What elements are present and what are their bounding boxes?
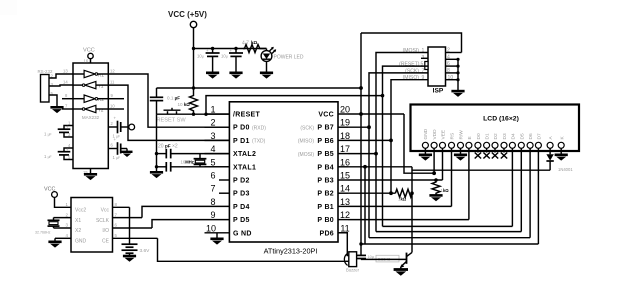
wire ISP MOSI row <box>376 53 428 232</box>
svg-text:P B3: P B3 <box>317 178 334 185</box>
wire row 244 to LCD D7 <box>361 243 538 245</box>
wire sck-net row to LCD D6 <box>369 237 530 239</box>
svg-text:7: 7 <box>210 184 215 194</box>
wire diode row to transistor collector <box>412 169 550 171</box>
capacitor 10uF buzzer <box>356 255 375 259</box>
wire mosi-net row to LCD D5 <box>376 231 521 233</box>
transistor Q1 <box>400 252 412 268</box>
wire LCD RS down <box>451 148 453 206</box>
svg-text:10µ: 10µ <box>221 54 228 59</box>
node LCD D2 no-connect X <box>492 148 498 158</box>
wire LCD E down <box>468 148 470 219</box>
ground under LED <box>260 73 273 79</box>
wire pin16 row to collector net <box>348 166 412 168</box>
wire pin20 VCC row to x404 <box>348 113 404 115</box>
wire pin17 MOSI row <box>348 153 376 155</box>
svg-text:(MOSI): (MOSI) <box>298 152 314 158</box>
svg-text:VDD: VDD <box>432 129 438 140</box>
svg-text:E: E <box>467 136 473 139</box>
svg-text:+: + <box>229 48 232 53</box>
wire VCC feed to LCD VDD <box>404 114 434 173</box>
wire DS1302 CE to bottom rail <box>158 238 347 261</box>
svg-text:VCC: VCC <box>83 48 95 54</box>
svg-text:VCC: VCC <box>318 112 334 119</box>
wire ISP MISO row <box>391 80 428 194</box>
wire LED to ground <box>266 61 268 72</box>
node LCD D1 no-connect X <box>483 148 489 158</box>
svg-text:D3: D3 <box>502 133 508 139</box>
wire reset to pin 1 <box>194 113 230 115</box>
wire ISP SCK row <box>369 73 428 238</box>
LED power (POWER LED) <box>261 47 304 62</box>
DS1302 pin numbers <box>66 202 118 238</box>
svg-text:(MISO): (MISO) <box>298 139 314 145</box>
MCU left pin numbers <box>206 105 216 234</box>
ground LCD K pin <box>555 148 568 160</box>
svg-text:2: 2 <box>447 48 450 54</box>
node LCD D3 no-connect X <box>501 148 507 158</box>
wire DS1302 GND pin4 <box>48 238 71 247</box>
battery 3.6V <box>122 207 151 261</box>
svg-text:20: 20 <box>340 105 350 115</box>
wire pin18 MISO row <box>348 139 391 141</box>
wire LCD D6 down <box>529 148 531 237</box>
wire pin14 row lead to resistor <box>348 192 395 194</box>
ISP left pin labels <box>399 48 420 81</box>
wire pin19 SCK row <box>348 126 369 128</box>
wire ISP gnd chain <box>457 59 459 91</box>
node VCC terminal DS1302 <box>44 187 71 208</box>
svg-text:3.6V: 3.6V <box>140 248 151 254</box>
svg-text:VCC (+5V): VCC (+5V) <box>168 10 207 19</box>
capacitor 20pF (XTAL1) <box>157 162 230 172</box>
svg-text:19: 19 <box>340 118 350 128</box>
svg-text:1 µF: 1 µF <box>44 154 52 159</box>
wire shared ground vertical (reset/xtal) <box>156 114 158 172</box>
svg-text:PD6: PD6 <box>319 230 334 237</box>
crystal 32.768kHz at DS1302 <box>35 218 71 235</box>
svg-text:D6: D6 <box>528 133 534 139</box>
wire VCC rail y=88 (reset area to right bus) <box>157 87 362 89</box>
svg-text:(TXD): (TXD) <box>252 139 266 145</box>
DS1302 internal labels <box>75 208 87 245</box>
svg-text:X2: X2 <box>75 228 81 234</box>
wire VCC vertical feed <box>193 28 195 88</box>
svg-text:D5: D5 <box>519 133 525 139</box>
MCU right pin numbers <box>340 105 350 234</box>
svg-text:GND: GND <box>75 239 87 245</box>
wire top VCC rail to LED <box>194 48 267 50</box>
svg-text:2: 2 <box>210 118 215 128</box>
wire pin15 row to VEE contrast network <box>348 179 443 181</box>
svg-text:1 µF: 1 µF <box>44 132 52 137</box>
ground transistor emitter <box>394 267 408 276</box>
wire T2out stub <box>62 108 73 110</box>
svg-text:P B1: P B1 <box>317 204 334 211</box>
chip U3 DS1302 body <box>71 198 113 253</box>
svg-text:P B5: P B5 <box>317 151 334 158</box>
DS1302 right stubs <box>113 207 158 238</box>
svg-text:11: 11 <box>110 80 115 85</box>
wire MCU PD6 pin11 to buzzer <box>338 233 349 256</box>
svg-text:CE: CE <box>102 239 110 245</box>
svg-text:P D5: P D5 <box>233 217 250 224</box>
node LCD D0 no-connect X <box>475 148 481 158</box>
svg-text:16: 16 <box>340 157 350 167</box>
wire LCD D7 down <box>537 148 539 244</box>
svg-text:R/W: R/W <box>459 130 465 140</box>
svg-text:D7: D7 <box>537 133 543 139</box>
connector J2 ISP header <box>425 47 446 95</box>
svg-text:D2: D2 <box>493 133 499 139</box>
svg-text:10µ: 10µ <box>368 255 375 259</box>
svg-text:6: 6 <box>447 61 450 67</box>
wire inside chip rows <box>73 73 84 75</box>
svg-text:32.768Hz: 32.768Hz <box>35 231 51 235</box>
node VCC at MAX232 pin16 <box>83 48 95 64</box>
svg-text:D0: D0 <box>476 133 482 139</box>
svg-text:10µ: 10µ <box>197 54 204 59</box>
wire R2out stub <box>108 98 124 100</box>
capacitor 20pF (XTAL2) <box>157 144 230 159</box>
LCD pin labels rotated <box>423 128 565 139</box>
MCU left pin names <box>233 112 261 238</box>
capacitor C bypass 2 (10u) <box>221 48 243 73</box>
svg-text:MAX232: MAX232 <box>82 115 100 120</box>
wire LCD VDD down <box>433 148 435 173</box>
wire MCU pin10 GND <box>210 233 223 245</box>
svg-text:1kΩ: 1kΩ <box>398 197 407 202</box>
svg-text:D1: D1 <box>485 133 491 139</box>
svg-text:17: 17 <box>340 144 350 154</box>
svg-text:I/O: I/O <box>102 228 109 234</box>
svg-text:P D4: P D4 <box>233 204 250 211</box>
svg-text:GND: GND <box>423 128 429 139</box>
svg-text:ATtiny2313-20PI: ATtiny2313-20PI <box>264 247 318 256</box>
svg-text:(RXD): (RXD) <box>252 126 266 132</box>
capacitor 1uF (MAX232 pin6 V-) <box>108 137 127 160</box>
wire LCD D5 down <box>520 148 522 231</box>
buffer R1 <box>84 70 104 78</box>
chip LCD (16x2) module <box>411 105 580 152</box>
wire RS232 pin2 to R1in <box>49 74 73 78</box>
node VCC (+5V) terminal <box>168 10 207 28</box>
svg-text:Buzzer: Buzzer <box>346 268 360 273</box>
svg-text:10: 10 <box>206 223 216 233</box>
capacitor C bypass 1 (10u) <box>197 48 220 73</box>
resistor 1K contrast <box>432 180 440 195</box>
svg-text:P B6: P B6 <box>317 138 334 145</box>
chip U2 MAX232 body <box>73 63 108 169</box>
wire DS1302 SCLK to MCU PD4 <box>142 206 205 217</box>
capacitor 1uF (MAX232 pin2 V+) <box>108 116 134 139</box>
MCU left pin stubs 1-10 <box>205 114 230 233</box>
svg-text:5: 5 <box>210 157 215 167</box>
resistor 10K (reset pullup) <box>178 88 198 114</box>
svg-text:P B0: P B0 <box>317 217 334 224</box>
ground LCD GND pin <box>419 148 432 160</box>
ground LCD R/W pin <box>454 148 467 160</box>
svg-text:kΩ: kΩ <box>251 40 258 45</box>
wire ISP pin3 stub <box>421 57 428 59</box>
buffer T1 <box>82 81 103 89</box>
switch RESET SW <box>157 108 194 124</box>
svg-text:Vcc2: Vcc2 <box>75 208 86 214</box>
ground under C1 <box>206 73 219 79</box>
svg-text:+: + <box>206 48 209 53</box>
ground MAX232 pin6 cap <box>122 152 133 157</box>
svg-text:1: 1 <box>210 105 215 115</box>
svg-text:14: 14 <box>63 80 68 85</box>
svg-text:3: 3 <box>210 131 215 141</box>
resistor 1K series (pin14) <box>395 189 412 197</box>
svg-text:9: 9 <box>210 210 215 220</box>
buffer R2 <box>84 95 104 103</box>
capacitor 1uF (MAX232 pins 4-5) <box>44 143 73 160</box>
svg-text:10: 10 <box>448 75 454 81</box>
svg-text:ISP: ISP <box>433 88 444 95</box>
wire ISP RESET row <box>383 66 429 226</box>
wire RS232 pin3 to T1out <box>49 85 73 86</box>
svg-text:D4: D4 <box>511 133 517 139</box>
svg-text:4.7: 4.7 <box>242 41 249 47</box>
MCU right pin stubs 20-11 <box>338 114 348 233</box>
svg-text:XTAL2: XTAL2 <box>233 151 256 158</box>
resistor R 4.7K (LED series) <box>242 40 267 53</box>
wire LCD D4 down <box>511 148 513 226</box>
svg-text:1 µF: 1 µF <box>113 155 121 160</box>
buzzer <box>344 252 359 273</box>
svg-text:16: 16 <box>84 59 89 64</box>
svg-text:11: 11 <box>340 223 349 233</box>
wire pin13 row to LCD RS <box>348 205 452 207</box>
svg-text:12: 12 <box>340 210 350 220</box>
svg-text:Vcc: Vcc <box>101 208 110 214</box>
capacitor 0.1uF (VCC bypass at reset) <box>150 88 180 114</box>
transistor Q1 label <box>376 255 399 262</box>
svg-text:POWER LED: POWER LED <box>274 55 304 61</box>
wire R2in stub <box>62 98 73 100</box>
wire collector vertical <box>411 167 413 253</box>
capacitor 1uF (MAX232 pins 1-3) <box>44 121 73 138</box>
svg-text:XTAL1: XTAL1 <box>233 164 256 171</box>
svg-text:P D1: P D1 <box>233 138 250 145</box>
diode 1N4001 at LCD A <box>546 148 573 172</box>
wire DS1302 I/O to MCU PD5 <box>152 220 205 228</box>
ISP right stubs and numbers <box>446 53 462 80</box>
LCD pin circles <box>422 142 564 148</box>
buffer T2 <box>82 105 103 113</box>
svg-text:P D0: P D0 <box>233 125 250 132</box>
svg-text:1N4001: 1N4001 <box>558 167 573 172</box>
svg-text:(SCK): (SCK) <box>300 126 314 132</box>
svg-text:8: 8 <box>447 68 450 74</box>
ground xtal caps <box>150 172 163 178</box>
wire MAX232 pin15 to ground <box>83 169 97 181</box>
svg-text:15: 15 <box>340 171 350 181</box>
wire reset-net row to LCD D4 <box>383 225 513 227</box>
svg-text:VEE: VEE <box>441 130 447 140</box>
svg-text:13: 13 <box>63 69 68 74</box>
svg-text:P D3: P D3 <box>233 191 250 198</box>
ground contrast resistor <box>429 195 442 201</box>
svg-text:14: 14 <box>340 184 350 194</box>
svg-text:4: 4 <box>447 54 450 60</box>
svg-text:P B2: P B2 <box>317 191 334 198</box>
ground under C2 <box>229 73 242 79</box>
svg-text:4: 4 <box>210 144 215 154</box>
svg-text:13: 13 <box>340 197 350 207</box>
svg-text:P B7: P B7 <box>317 125 334 132</box>
connector RS-232 <box>38 69 54 102</box>
svg-text:12: 12 <box>110 69 115 74</box>
svg-text:RESET SW: RESET SW <box>157 118 187 124</box>
svg-text:1kΩ: 1kΩ <box>441 188 450 193</box>
svg-text:X1: X1 <box>75 218 81 224</box>
svg-text:LCD (16×2): LCD (16×2) <box>483 116 519 123</box>
svg-text:0.1 µF: 0.1 µF <box>167 96 180 101</box>
svg-text:P D2: P D2 <box>233 178 250 185</box>
svg-text:8: 8 <box>210 197 215 207</box>
wire T1in to MCU PD1 <box>108 85 229 140</box>
wire R1out to MCU PD0 <box>108 74 229 127</box>
wire pb4-net vertical to row 244 <box>364 167 366 244</box>
svg-text:10: 10 <box>110 104 115 109</box>
wire RESET rail over chip to pin1 <box>206 96 383 115</box>
svg-text:SCLK: SCLK <box>96 218 110 224</box>
wire T2in stub <box>108 108 124 110</box>
wire VCC vertical x361 <box>360 33 362 255</box>
svg-text:10 kΩ: 10 kΩ <box>178 102 191 107</box>
wire base row <box>361 258 407 260</box>
wire LCD VEE to contrast resistor <box>442 148 444 180</box>
svg-text:P B4: P B4 <box>317 164 334 171</box>
svg-text:G ND: G ND <box>233 230 252 237</box>
svg-text:/RESET: /RESET <box>233 112 261 119</box>
wire ISP pin2 VCC top loop <box>361 33 462 53</box>
chip U1 ATtiny2313-20PI body <box>229 102 338 256</box>
MCU right pin names <box>317 112 334 238</box>
wire pin12 row to LCD E <box>348 219 469 221</box>
svg-text:RS: RS <box>450 133 456 140</box>
ground RS232 <box>50 107 63 113</box>
svg-text:6: 6 <box>210 171 215 181</box>
svg-text:18: 18 <box>340 131 350 141</box>
crystal 16MHz <box>181 154 207 167</box>
svg-text:16MHz: 16MHz <box>181 160 194 165</box>
wire RS232 pin5 to ground <box>49 95 57 107</box>
ground ISP <box>451 91 464 97</box>
